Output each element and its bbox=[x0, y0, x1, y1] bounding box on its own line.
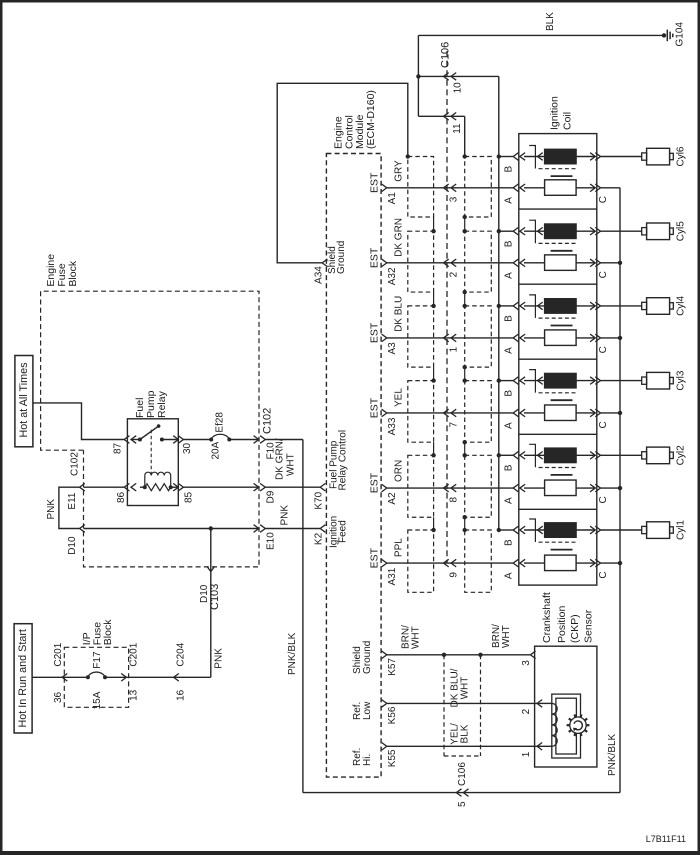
wire coil feed bus bbox=[619, 188, 621, 793]
coil Cyl5 pin B chevrons bbox=[513, 227, 518, 235]
junction feed bus / Cyl4 C wire bbox=[618, 336, 622, 340]
svg-text:A33: A33 bbox=[387, 417, 398, 435]
wire coil Cyl4 C to feed bus bbox=[601, 337, 621, 339]
svg-text:13: 13 bbox=[128, 689, 139, 701]
svg-text:E10: E10 bbox=[266, 532, 277, 550]
wire EST A32 to coil bbox=[387, 262, 513, 264]
junction CKP shield left bbox=[442, 653, 446, 657]
svg-text:PNK: PNK bbox=[214, 648, 225, 669]
coil Cyl6 wire into primary bbox=[524, 156, 545, 158]
coil Cyl4 core bar bbox=[551, 325, 573, 327]
svg-text:A: A bbox=[504, 572, 515, 579]
svg-text:Feed: Feed bbox=[337, 520, 348, 543]
wire coil ground bus bbox=[498, 76, 500, 530]
svg-text:85: 85 bbox=[183, 491, 194, 503]
svg-text:A2: A2 bbox=[387, 492, 398, 505]
coil Cyl4 primary winding bbox=[545, 299, 577, 314]
fuse Ef28 20A bbox=[209, 438, 213, 442]
connector C102 pin E11 chevron bbox=[80, 483, 85, 491]
svg-text:DK GRN/: DK GRN/ bbox=[275, 438, 286, 480]
wire DK GRN/WHT - PNK/BLK vertical bbox=[302, 440, 304, 793]
svg-text:EST: EST bbox=[368, 547, 380, 568]
svg-text:C: C bbox=[598, 271, 609, 278]
coil Cyl4 primary chevron bbox=[538, 302, 543, 310]
svg-text:L7B11F11: L7B11F11 bbox=[646, 834, 686, 844]
ignition coil Cyl1 B wire bbox=[499, 529, 513, 531]
svg-text:5: 5 bbox=[457, 801, 468, 807]
coil Cyl5 primary winding bbox=[545, 224, 577, 239]
coil Cyl5 pin A chevrons bbox=[513, 259, 518, 267]
connector C106 pin 2 chevrons bbox=[444, 259, 449, 267]
relay coil inductor bbox=[144, 475, 146, 487]
shield chain junction (left) bbox=[431, 229, 435, 233]
battery feed box Hot In Run and Start bbox=[14, 624, 32, 733]
relay pin 30 chevrons bbox=[173, 436, 178, 444]
shield chain link (left) bbox=[433, 367, 435, 380]
connector C106 pin 8 chevrons bbox=[444, 484, 449, 492]
wire relay 85 to C102 D9 bbox=[183, 486, 258, 488]
coil Cyl5 B out chevrons bbox=[590, 227, 595, 235]
coil Cyl2 primary out wire bbox=[576, 454, 595, 456]
coil Cyl2 primary winding bbox=[545, 448, 577, 463]
shield (right) for EST A33 bbox=[465, 381, 492, 443]
relay coil resistor bbox=[140, 486, 145, 488]
relay pin 87 chevrons bbox=[124, 436, 129, 444]
relay switch arm bbox=[140, 426, 159, 439]
shield chain junction (left) bbox=[431, 378, 435, 382]
svg-text:K55: K55 bbox=[387, 749, 398, 767]
svg-text:Crankshaft: Crankshaft bbox=[541, 592, 553, 643]
ECM pin K56 chevron bbox=[382, 700, 387, 708]
coil Cyl6 B out chevrons bbox=[590, 153, 595, 161]
coil Cyl2 wire to secondary bbox=[524, 487, 545, 489]
svg-text:EST: EST bbox=[368, 397, 380, 418]
svg-text:K56: K56 bbox=[387, 706, 398, 724]
svg-text:2: 2 bbox=[521, 708, 532, 714]
CKP pickup coil arcs bbox=[552, 703, 557, 714]
coil Cyl4 secondary out wire bbox=[576, 337, 595, 339]
wire bottom PNK/BLK run bbox=[303, 792, 620, 794]
svg-text:A3: A3 bbox=[387, 342, 398, 355]
svg-text:A: A bbox=[504, 497, 515, 504]
svg-text:Hot In Run and Start: Hot In Run and Start bbox=[17, 629, 29, 727]
svg-text:C: C bbox=[598, 496, 609, 503]
svg-text:B: B bbox=[504, 390, 515, 397]
svg-text:DK GRN: DK GRN bbox=[393, 218, 404, 257]
svg-text:K70: K70 bbox=[314, 491, 325, 509]
coil Cyl3 primary chevron bbox=[538, 377, 543, 385]
ignition coil assembly box bbox=[519, 134, 597, 585]
wire K70 branch bbox=[265, 486, 320, 488]
coil Cyl2 primary bracket bbox=[529, 444, 535, 467]
CKP pin 1 arrow bbox=[537, 743, 542, 751]
ignition coil Cyl4 B wire bbox=[499, 305, 513, 307]
wire coil Cyl6 C to feed bus bbox=[601, 187, 621, 189]
wire coil Cyl1 to spark plug bbox=[601, 529, 642, 531]
ignition coil Cyl5 B wire bbox=[499, 230, 513, 232]
svg-text:C102: C102 bbox=[70, 452, 81, 476]
svg-text:A32: A32 bbox=[387, 267, 398, 285]
connector C102 pin E10 chevrons bbox=[254, 525, 259, 533]
svg-text:20A: 20A bbox=[211, 441, 222, 459]
shield (left) for EST A32 bbox=[408, 231, 434, 292]
wire K56 Ref Low bbox=[387, 702, 537, 704]
shield (right) for EST A1 bbox=[465, 157, 492, 218]
wire F10 to PNK/BLK vertical bbox=[265, 439, 303, 441]
coil Cyl6 primary bracket bbox=[529, 146, 535, 169]
wire coil Cyl2 C to feed bus bbox=[601, 487, 621, 489]
CKP pickup body bbox=[552, 694, 581, 758]
svg-text:C: C bbox=[598, 346, 609, 353]
coil Cyl6 pin A chevrons bbox=[513, 184, 518, 192]
svg-text:B: B bbox=[504, 315, 515, 322]
wire EST A33 to coil bbox=[387, 412, 513, 414]
CKP pin 3 chevron bbox=[530, 651, 535, 659]
coil Cyl1 core bar bbox=[551, 549, 573, 551]
coil Cyl1 pin A chevrons bbox=[513, 559, 518, 567]
shield (right) for EST A32 bbox=[465, 231, 492, 292]
junction ground bus / Cyl6 B wire bbox=[497, 154, 501, 158]
coil Cyl5 core bar bbox=[551, 250, 573, 252]
shield (left) for EST A3 bbox=[408, 306, 434, 367]
junction feed bus / Cyl5 C wire bbox=[618, 261, 622, 265]
svg-text:ORN: ORN bbox=[393, 460, 404, 482]
coil Cyl1 primary out wire bbox=[576, 529, 595, 531]
coil Cyl2 core bar bbox=[551, 474, 573, 476]
svg-text:EST: EST bbox=[368, 472, 380, 493]
battery feed box Hot at All Times bbox=[15, 356, 33, 447]
svg-text:9: 9 bbox=[449, 572, 460, 578]
coil Cyl1 pin C chevrons bbox=[590, 559, 595, 567]
svg-text:Coil: Coil bbox=[561, 112, 573, 130]
ECM pin A32 EST chevron bbox=[382, 259, 387, 267]
svg-text:7: 7 bbox=[449, 421, 460, 427]
spark plug Cyl5 bbox=[642, 228, 647, 235]
ECM pin A34 chevron bbox=[322, 259, 327, 267]
coil Cyl6 primary out wire bbox=[576, 156, 595, 158]
I/P fuse block box bbox=[64, 647, 128, 707]
svg-text:8: 8 bbox=[449, 497, 460, 503]
connector C106 pin 5 chevrons (CKP feed) bbox=[456, 789, 461, 797]
coil Cyl3 wire to secondary bbox=[524, 412, 545, 414]
wire C204 to riser bbox=[174, 676, 211, 678]
svg-text:16: 16 bbox=[176, 689, 187, 701]
svg-text:Cyl6: Cyl6 bbox=[676, 146, 687, 166]
ignition coil Cyl2 B wire bbox=[499, 454, 513, 456]
junction feed bus / Cyl1 C wire bbox=[618, 561, 622, 565]
coil unit divider bbox=[519, 508, 597, 510]
svg-text:B: B bbox=[504, 464, 515, 471]
svg-text:C: C bbox=[598, 196, 609, 203]
coil Cyl2 pin C chevrons bbox=[590, 484, 595, 492]
svg-text:1: 1 bbox=[449, 346, 460, 352]
coil Cyl2 wire into primary bbox=[524, 454, 545, 456]
svg-text:11: 11 bbox=[452, 123, 463, 134]
svg-text:C: C bbox=[598, 421, 609, 428]
svg-text:A: A bbox=[504, 422, 515, 429]
wire EST A3 to coil bbox=[387, 337, 513, 339]
connector C106 pin 3 chevrons bbox=[444, 184, 449, 192]
coil Cyl4 wire to secondary bbox=[524, 337, 545, 339]
connector C106 pin 7 chevrons bbox=[444, 409, 449, 417]
wire relay 30 to fuse Ef28 bbox=[183, 439, 211, 441]
svg-text:B: B bbox=[504, 539, 515, 546]
spark plug Cyl1 bbox=[642, 526, 647, 533]
ECM pin K55 chevron bbox=[382, 743, 387, 751]
coil Cyl3 core (dashed) bbox=[539, 392, 578, 394]
svg-text:PNK: PNK bbox=[280, 505, 291, 526]
coil Cyl1 secondary winding bbox=[545, 555, 577, 571]
wire ignition feed down to C103 bbox=[210, 529, 212, 678]
wire PNK jumper loop bbox=[59, 487, 80, 528]
svg-text:F17: F17 bbox=[92, 651, 103, 669]
wire E11 to relay 86 bbox=[84, 486, 125, 488]
svg-text:Relay Control: Relay Control bbox=[337, 430, 348, 491]
wire shield drain from pin 11 down bbox=[464, 116, 466, 156]
svg-text:C201: C201 bbox=[53, 642, 64, 666]
coil Cyl2 core (dashed) bbox=[539, 467, 578, 469]
shield (left) for EST A2 bbox=[408, 455, 434, 517]
wire coil Cyl4 to spark plug bbox=[601, 305, 642, 307]
wire coil Cyl2 to spark plug bbox=[601, 454, 642, 456]
ECM pin A31 EST chevron bbox=[382, 559, 387, 567]
svg-text:C204: C204 bbox=[176, 642, 187, 666]
junction ignition feed split bbox=[209, 526, 213, 530]
wire from BLK down to C106 pins bbox=[417, 35, 419, 116]
svg-text:(CKP): (CKP) bbox=[569, 614, 581, 643]
junction ground bus / Cyl1 B wire bbox=[497, 528, 501, 532]
shield chain link (left) bbox=[433, 292, 435, 306]
junction shield drain / right shield box bbox=[463, 154, 467, 158]
coil Cyl5 secondary winding bbox=[545, 255, 577, 270]
wire K2 branch bbox=[265, 528, 320, 530]
svg-text:Relay: Relay bbox=[156, 390, 168, 418]
svg-text:YEL: YEL bbox=[393, 388, 404, 407]
shield chain link (right) bbox=[464, 217, 466, 231]
svg-text:A: A bbox=[504, 197, 515, 204]
coil Cyl5 wire to secondary bbox=[524, 262, 545, 264]
coil Cyl3 pin B chevrons bbox=[513, 377, 518, 385]
coil Cyl4 pin A chevrons bbox=[513, 334, 518, 342]
svg-text:A: A bbox=[504, 272, 515, 279]
shield (right) for EST A2 bbox=[465, 455, 492, 517]
wire D10 to C102 E10 bbox=[84, 528, 259, 530]
svg-text:GRY: GRY bbox=[393, 160, 404, 182]
coil Cyl6 secondary out wire bbox=[576, 187, 595, 189]
junction ground bus / Cyl3 B wire bbox=[497, 378, 501, 382]
svg-text:Module: Module bbox=[354, 114, 366, 149]
shield chain link (left) bbox=[433, 442, 435, 455]
svg-text:Ground: Ground bbox=[362, 641, 373, 674]
coil Cyl4 pin B chevrons bbox=[513, 302, 518, 310]
shield chain junction (left) bbox=[431, 304, 435, 308]
relay contact 30 bbox=[160, 438, 164, 442]
spark plug Cyl4 bbox=[642, 302, 647, 309]
coil Cyl2 secondary winding bbox=[545, 480, 577, 496]
coil Cyl4 pin C chevrons bbox=[590, 334, 595, 342]
connector C106 pin 10 chevrons bbox=[444, 73, 449, 81]
wire C201 to fuse F17 bbox=[62, 676, 88, 678]
connector C106 pin 11 chevrons bbox=[444, 113, 449, 121]
svg-text:Position: Position bbox=[556, 605, 568, 643]
svg-text:PPL: PPL bbox=[393, 538, 404, 557]
coil Cyl3 B out chevrons bbox=[590, 377, 595, 385]
relay pin 86 chevrons bbox=[124, 483, 129, 491]
svg-text:C103: C103 bbox=[209, 584, 221, 610]
svg-text:BLK: BLK bbox=[460, 724, 471, 743]
wire coil Cyl1 C to feed bus bbox=[601, 562, 621, 564]
coil unit divider bbox=[519, 433, 597, 435]
connector C103 pin D10 chevron bbox=[207, 566, 215, 571]
coil Cyl5 primary out wire bbox=[576, 230, 595, 232]
relay contact fixed bbox=[131, 439, 140, 441]
coil unit divider bbox=[519, 358, 597, 360]
coil unit divider bbox=[519, 283, 597, 285]
svg-text:3: 3 bbox=[449, 196, 460, 202]
svg-text:2: 2 bbox=[449, 271, 460, 277]
coil Cyl1 core (dashed) bbox=[539, 541, 578, 543]
shield chain link (left) bbox=[433, 217, 435, 231]
connector C102 pin D10 chevron bbox=[80, 525, 85, 533]
svg-text:A1: A1 bbox=[387, 192, 398, 205]
ECM pin K2 chevron bbox=[320, 525, 325, 533]
junction ground bus / Cyl4 B wire bbox=[497, 304, 501, 308]
coil Cyl2 pin B chevrons bbox=[513, 452, 518, 460]
coil Cyl6 primary chevron bbox=[538, 153, 543, 161]
wire coil Cyl3 C to feed bus bbox=[601, 412, 621, 414]
svg-text:Low: Low bbox=[362, 701, 373, 720]
coil Cyl5 pin C chevrons bbox=[590, 259, 595, 267]
wire EST A1 to coil bbox=[387, 187, 513, 189]
coil Cyl1 wire to secondary bbox=[524, 562, 545, 564]
svg-text:Block: Block bbox=[67, 260, 79, 286]
wire fuse to C102 F10 bbox=[229, 439, 258, 441]
svg-text:3: 3 bbox=[521, 660, 532, 666]
shield chain junction (left) bbox=[431, 528, 435, 532]
svg-text:B: B bbox=[504, 166, 515, 173]
ground G104 bbox=[662, 33, 666, 37]
spark plug Cyl6 bbox=[642, 153, 647, 160]
svg-text:WHT: WHT bbox=[411, 626, 422, 649]
svg-text:EST: EST bbox=[368, 172, 380, 193]
svg-text:C201: C201 bbox=[128, 642, 139, 666]
CKP rotation arrow bbox=[574, 721, 582, 730]
fuse F17 15A bbox=[86, 675, 90, 679]
shield (left) for EST A1 bbox=[408, 157, 434, 218]
CKP reluctor wheel bbox=[570, 717, 586, 733]
svg-text:C102: C102 bbox=[262, 408, 274, 434]
crankshaft position sensor box bbox=[535, 646, 597, 767]
svg-text:B: B bbox=[504, 240, 515, 247]
svg-text:PNK/BLK: PNK/BLK bbox=[287, 632, 298, 675]
svg-text:10: 10 bbox=[453, 82, 464, 94]
svg-text:Cyl4: Cyl4 bbox=[676, 295, 687, 315]
coil Cyl6 secondary winding bbox=[545, 180, 577, 196]
junction ground bus / Cyl5 B wire bbox=[497, 229, 501, 233]
wire pin 10 row bbox=[418, 75, 498, 77]
svg-text:K57: K57 bbox=[387, 658, 398, 676]
connector C204 pin 16 chevron bbox=[174, 674, 179, 682]
svg-text:A: A bbox=[504, 347, 515, 354]
wire coil Cyl3 to spark plug bbox=[601, 380, 642, 382]
coil Cyl3 primary winding bbox=[545, 373, 577, 388]
coil unit divider bbox=[519, 208, 597, 210]
coil Cyl5 primary chevron bbox=[538, 227, 543, 235]
coil Cyl3 secondary winding bbox=[545, 405, 577, 421]
svg-text:15A: 15A bbox=[92, 691, 103, 709]
svg-text:1: 1 bbox=[521, 751, 532, 757]
wire coil Cyl5 C to feed bus bbox=[601, 262, 621, 264]
coil Cyl1 primary winding bbox=[545, 523, 577, 538]
coil Cyl1 secondary out wire bbox=[576, 562, 595, 564]
wire K57 shield drain bbox=[387, 654, 531, 656]
coil Cyl4 primary out wire bbox=[576, 305, 595, 307]
fuel pump relay box bbox=[127, 419, 178, 506]
wire K55 Ref Hi bbox=[387, 745, 537, 747]
wire C201 to C204 bbox=[126, 676, 173, 678]
coil Cyl6 wire to secondary bbox=[524, 187, 545, 189]
coil Cyl3 wire into primary bbox=[524, 380, 545, 382]
svg-text:A34: A34 bbox=[314, 266, 325, 284]
shield (left) for EST A33 bbox=[408, 381, 434, 443]
coil Cyl6 core (dashed) bbox=[539, 168, 578, 170]
svg-text:Hi.: Hi. bbox=[362, 754, 373, 766]
coil Cyl1 primary chevron bbox=[538, 526, 543, 534]
svg-text:Hot at All Times: Hot at All Times bbox=[18, 362, 30, 438]
wire EST A2 to coil bbox=[387, 487, 513, 489]
svg-text:PNK/BLK: PNK/BLK bbox=[607, 733, 618, 776]
connector C201 pin 36 chevron bbox=[62, 674, 67, 682]
shield chain link (right) bbox=[464, 367, 466, 380]
svg-text:WHT: WHT bbox=[501, 625, 512, 648]
coil Cyl6 primary winding bbox=[545, 149, 577, 164]
svg-text:C: C bbox=[598, 571, 609, 578]
shield chain link (left) bbox=[433, 517, 435, 530]
coil Cyl2 secondary out wire bbox=[576, 487, 595, 489]
CKP pin 2 arrow bbox=[537, 700, 542, 708]
spark plug Cyl3 bbox=[642, 377, 647, 384]
coil Cyl6 pin B chevrons bbox=[513, 153, 518, 161]
coil Cyl5 wire into primary bbox=[524, 230, 545, 232]
wire fuse F17 to C201-13 bbox=[105, 676, 126, 678]
coil Cyl5 primary bracket bbox=[529, 220, 535, 243]
wire coil Cyl5 to spark plug bbox=[601, 230, 642, 232]
engine fuse block outline bbox=[41, 291, 259, 567]
junction feed bus / Cyl2 C wire bbox=[618, 486, 622, 490]
connector C106 pin 1 chevrons bbox=[444, 334, 449, 342]
ignition coil Cyl6 B wire bbox=[499, 156, 513, 158]
ECM pin A1 EST chevron bbox=[382, 184, 387, 192]
coil Cyl5 core (dashed) bbox=[539, 242, 578, 244]
connector C102 line bbox=[258, 291, 260, 567]
junction shield drain / left shield box bbox=[406, 154, 410, 158]
junction ground bus / Cyl2 B wire bbox=[497, 453, 501, 457]
ignition coil Cyl3 B wire bbox=[499, 380, 513, 382]
svg-text:C106: C106 bbox=[439, 42, 451, 68]
coil Cyl4 wire into primary bbox=[524, 305, 545, 307]
shield chain junctions (right) bbox=[463, 440, 467, 444]
coil Cyl3 secondary out wire bbox=[576, 412, 595, 414]
connector C102 pin F10 chevrons bbox=[254, 436, 259, 444]
coil Cyl2 primary chevron bbox=[538, 452, 543, 460]
ECM pin A33 EST chevron bbox=[382, 409, 387, 417]
junction at pin 10 row bbox=[416, 74, 420, 78]
svg-text:(ECM-D160): (ECM-D160) bbox=[365, 90, 377, 149]
svg-text:A31: A31 bbox=[387, 567, 398, 585]
junction feed bus / Cyl3 C wire bbox=[618, 411, 622, 415]
ECM pin K70 chevron bbox=[320, 483, 325, 491]
spark plug Cyl2 bbox=[642, 452, 647, 459]
